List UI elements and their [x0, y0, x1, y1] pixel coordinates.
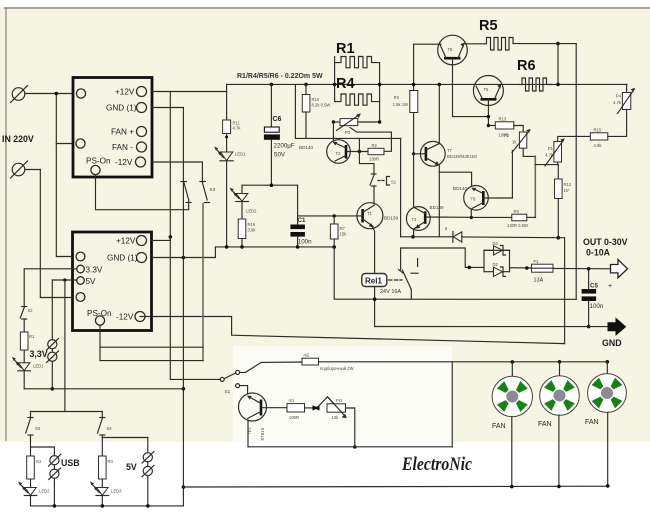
node PSU1 gnd drop	[182, 256, 186, 260]
wire to fuse	[510, 267, 532, 269]
PSU1 pin FAN+	[137, 127, 147, 137]
wire R1R4 left joins rail	[334, 57, 336, 102]
wire branch to PSU1 pin b	[56, 143, 72, 145]
fan 3	[606, 360, 610, 364]
svg-text:BD139: BD139	[384, 216, 398, 221]
wire P1 bottom stub	[557, 162, 559, 165]
wire S2 to R1	[23, 319, 25, 332]
svg-text:R13: R13	[499, 117, 507, 122]
wire T2 collector drop	[332, 122, 334, 141]
pot Pr1 wiper bend	[318, 397, 335, 408]
svg-text:R12: R12	[564, 182, 572, 187]
wire T1 emitter down to relay/gnd	[373, 228, 375, 327]
wire switch to T1 collector	[373, 186, 375, 204]
wire PS-On2 row a	[100, 346, 203, 348]
wire T7 emitter down	[438, 166, 440, 237]
wire fuse to OUT	[553, 267, 610, 269]
svg-text:ElectroNic: ElectroNic	[401, 454, 472, 475]
svg-text:4.7k: 4.7k	[613, 100, 622, 105]
svg-text:подборочный 2W: подборочный 2W	[320, 366, 354, 371]
svg-text:R3: R3	[108, 459, 114, 464]
bottom wire nodes	[53, 504, 57, 508]
svg-text:GND: GND	[602, 338, 622, 348]
svg-text:T7: T7	[447, 148, 453, 153]
svg-text:F1: F1	[534, 259, 540, 264]
svg-text:BD140: BD140	[299, 145, 313, 150]
svg-text:+12V: +12V	[115, 88, 135, 97]
svg-text:Rel1: Rel1	[365, 277, 382, 286]
wire P1 top to R15	[558, 136, 591, 141]
wire R9 row	[471, 216, 512, 218]
diode D5	[453, 232, 462, 242]
svg-text:50V: 50V	[274, 152, 286, 159]
wire LED1b down to rail	[23, 371, 25, 389]
transistor T1	[357, 203, 383, 229]
LED2 (mid)	[241, 185, 243, 193]
svg-text:FAN +: FAN +	[111, 128, 134, 137]
svg-text:3.9k: 3.9k	[248, 228, 257, 233]
svg-text:C1: C1	[298, 217, 306, 224]
svg-text:LED1: LED1	[33, 364, 44, 369]
svg-text:130R: 130R	[369, 157, 379, 162]
svg-text:S1: S1	[225, 389, 231, 394]
svg-text:S2: S2	[28, 308, 34, 313]
PSU1 pin GND (1)	[137, 103, 147, 113]
wire KT819 collector down	[247, 421, 249, 447]
wire KT819 base to rs1	[261, 407, 287, 409]
svg-text:GND (1): GND (1)	[106, 104, 137, 113]
wire P4 top to rail	[626, 84, 628, 92]
node R10 top	[304, 83, 308, 87]
svg-text:S3: S3	[35, 426, 41, 431]
wire top node across	[558, 43, 576, 45]
OUT arrow	[611, 260, 628, 278]
svg-text:PS-On: PS-On	[86, 157, 111, 166]
svg-text:+: +	[608, 283, 612, 290]
wire R9 right	[527, 216, 536, 218]
wire PSU1 GND to S3 column	[152, 107, 183, 109]
GND mid rail	[215, 246, 334, 248]
wire R10 stub	[305, 84, 307, 94]
svg-text:LED1: LED1	[235, 152, 246, 157]
svg-text:FAN: FAN	[538, 421, 552, 428]
wire plug2 right	[25, 169, 40, 171]
white inner region (S1/KT819 zone)	[233, 346, 452, 442]
svg-text:100n: 100n	[590, 303, 604, 310]
wire rs1 to Pr1 wiper	[305, 407, 314, 409]
svg-text:R9: R9	[514, 209, 520, 214]
svg-text:D2: D2	[493, 262, 499, 267]
resistor R13	[495, 122, 514, 129]
wire R16 bottom	[241, 239, 243, 247]
wire R12 bottom to -12V node	[557, 199, 559, 238]
svg-text:5V: 5V	[86, 277, 97, 286]
svg-text:BD139: BD139	[430, 205, 444, 210]
GND bus	[375, 326, 608, 328]
svg-text:IN 220V: IN 220V	[2, 134, 34, 144]
svg-text:+12V: +12V	[116, 237, 136, 246]
switch S2	[22, 306, 27, 308]
svg-text:1k*: 1k*	[564, 188, 570, 193]
resistor R9	[512, 214, 527, 221]
svg-text:T3: T3	[412, 217, 418, 222]
wire blade bottom	[410, 290, 412, 300]
PSU2 pin 3.3V	[77, 265, 85, 273]
fan 1	[511, 360, 515, 364]
resistor coil R1	[335, 57, 380, 68]
svg-text:13A: 13A	[534, 278, 544, 284]
node mains branch	[55, 92, 58, 95]
svg-text:R3: R3	[394, 95, 400, 100]
svg-text:PS-On: PS-On	[87, 309, 112, 318]
wire T2 emitter to mini switch	[359, 152, 374, 174]
GND arrow	[608, 319, 626, 335]
PSU1 pin PS-On	[91, 165, 100, 174]
wire S1 lower pole to KT819	[240, 386, 248, 394]
resistor coil R6	[520, 78, 552, 91]
wire PSU2 +12V jog	[169, 237, 171, 241]
svg-text:OUT 0-30V: OUT 0-30V	[583, 237, 628, 247]
S3/S4 header	[31, 411, 103, 413]
svg-text:100R: 100R	[289, 415, 299, 420]
svg-text:USB: USB	[61, 458, 80, 468]
svg-text:LED3: LED3	[111, 489, 122, 494]
PSU1 pin -12V	[136, 157, 146, 167]
svg-text:LED2: LED2	[39, 489, 50, 494]
wire Pr1 right down	[346, 408, 355, 447]
paper frame left	[5, 8, 7, 441]
PSU1 pin FAN-	[137, 142, 147, 152]
svg-text:R1: R1	[29, 334, 35, 339]
svg-text:КТ819: КТ819	[260, 427, 265, 440]
switch S3 blade 1	[181, 181, 187, 183]
svg-text:R5: R5	[479, 18, 498, 34]
wire R2 right up to P3 row	[350, 128, 391, 152]
wire 5V to S3/S4 header	[64, 280, 66, 412]
svg-text:T6: T6	[471, 197, 477, 202]
transistor T5	[473, 76, 503, 106]
wire S3 blade2 gray drop	[202, 204, 204, 361]
wire LED2 top row	[242, 184, 298, 186]
relay dashes	[389, 279, 403, 281]
PSU1 left pin b	[76, 139, 85, 148]
transistor T7	[420, 141, 445, 166]
wire S1 upper pole to rs2	[240, 362, 302, 372]
wire jacks down to LED rail	[51, 361, 53, 389]
svg-text:8.2k 0.5W: 8.2k 0.5W	[312, 103, 331, 108]
switch S1a (mini)	[371, 173, 376, 175]
wire R15 right to P4 bottom	[608, 110, 627, 137]
switch S3 blade 2	[200, 181, 206, 183]
svg-text:2200µF: 2200µF	[274, 143, 295, 150]
PSU1 left pin a	[76, 89, 85, 98]
wire 5V jacks drop	[51, 280, 53, 340]
svg-text:R2: R2	[36, 459, 42, 464]
resistor R2	[368, 148, 384, 154]
LED1 (top)	[220, 152, 232, 161]
wire long vertical x183	[31, 108, 184, 506]
relay fixed contact	[417, 259, 419, 267]
USB jacks	[31, 446, 55, 448]
svg-text:LED2: LED2	[246, 209, 257, 214]
resistor R2 (usb led)	[27, 456, 35, 479]
svg-text:130R 0.5W: 130R 0.5W	[507, 223, 528, 228]
wire R3 column top	[413, 44, 415, 90]
PSU1 pin +12V	[137, 87, 147, 97]
wire PSU1 +12V to R11 column	[152, 91, 227, 93]
svg-text:T8: T8	[448, 47, 454, 52]
resistor coil R5	[484, 38, 558, 51]
wire PSU2 +12V row	[152, 239, 170, 241]
svg-text:R7: R7	[340, 226, 346, 231]
svg-text:S4: S4	[107, 426, 113, 431]
svg-text:R10: R10	[312, 97, 320, 102]
svg-text:C5: C5	[590, 283, 598, 290]
svg-text:R15: R15	[594, 128, 602, 133]
wire LED1 down to GND rail	[226, 161, 228, 247]
wire S3 blade1 to PS-On PSU1	[96, 175, 189, 210]
wire R1 to LED1b	[23, 350, 25, 363]
resistor R16	[238, 219, 246, 239]
svg-text:1.5k 1W: 1.5k 1W	[393, 102, 408, 107]
wire C1 column	[297, 185, 299, 224]
svg-text:10k: 10k	[332, 415, 340, 420]
resistor R3 (5V led)	[99, 456, 107, 479]
svg-text:3,3V: 3,3V	[30, 349, 48, 359]
wire long vertical x576	[575, 44, 577, 300]
wire P2 bottom chain	[523, 148, 535, 156]
svg-text:4.7k: 4.7k	[233, 126, 242, 131]
wire T8 base row	[414, 43, 441, 45]
svg-text:S3: S3	[210, 187, 216, 192]
wire R1R4 right node	[379, 63, 381, 122]
transistor T8	[438, 35, 468, 65]
wire mains branch down	[56, 94, 72, 257]
resistor R11	[223, 120, 231, 134]
resistor R1 (3.3V led)	[20, 332, 28, 350]
svg-text:rs2: rs2	[304, 353, 310, 358]
wire PS-On2 drop	[99, 325, 101, 361]
ATX PSU 1 box	[73, 78, 152, 178]
LED3 (bottom)	[101, 479, 103, 488]
transistor T6	[464, 186, 489, 211]
svg-text:BD139/MJE15G: BD139/MJE15G	[447, 154, 477, 159]
wire R11 to LED1	[226, 134, 228, 153]
svg-text:R2: R2	[372, 143, 378, 148]
wire elbow to T6 top	[439, 172, 471, 186]
relay blade	[402, 270, 411, 290]
wire T5 emitter down to R13	[487, 99, 489, 125]
svg-text:P2: P2	[504, 133, 510, 138]
wire x400 drop from T-row	[400, 138, 402, 236]
wire P2 wiper down to T6 base	[511, 151, 513, 199]
svg-text:4.9k: 4.9k	[594, 143, 603, 148]
svg-text:-12V: -12V	[115, 158, 133, 167]
svg-text:P4: P4	[616, 94, 622, 99]
node R5 right	[556, 42, 560, 46]
svg-text:R1: R1	[336, 41, 355, 57]
svg-text:C6: C6	[273, 116, 282, 123]
fan 2	[558, 360, 562, 364]
PSU2 pin PS-On	[95, 316, 104, 325]
wire plug1 to PSU1 pin a	[25, 93, 72, 95]
output jacks 3.3V	[48, 340, 57, 349]
wire R11 column	[226, 84, 228, 120]
resistor R7	[333, 216, 335, 224]
wire T2 emitter tail	[358, 138, 360, 151]
PSU2 pin +12V	[137, 236, 147, 246]
wire PSU1 GND drop joins PSU2 gnd row	[182, 256, 184, 258]
wire PS-On2 row b	[100, 360, 203, 362]
mains plug 2	[12, 163, 25, 176]
PSU2 left pin 1	[76, 252, 85, 261]
wire C1 bottom	[297, 237, 299, 247]
svg-text:100n: 100n	[298, 239, 312, 246]
wire to R13	[488, 125, 495, 127]
svg-text:GND (1): GND (1)	[107, 254, 138, 263]
svg-text:R1/R4/R5/R6 - 0.22Om 5W: R1/R4/R5/R6 - 0.22Om 5W	[237, 73, 323, 80]
svg-text:5V: 5V	[126, 462, 137, 472]
svg-text:FAN: FAN	[585, 419, 599, 426]
svg-text:T2: T2	[336, 151, 342, 156]
LED supply rail	[24, 388, 183, 390]
wire chain branch to P1 bottom and R12	[535, 165, 558, 179]
wire 3.3V pin to left	[24, 268, 77, 270]
resistor rs1	[287, 404, 305, 412]
wire D5 row right	[462, 236, 559, 239]
wire D5 row left	[401, 236, 453, 238]
switch S3 (bottom)	[30, 412, 32, 418]
svg-text:15k: 15k	[340, 232, 348, 237]
mains plug 1	[12, 88, 25, 101]
pot P1	[554, 142, 562, 163]
wire rs2 to fans rail	[319, 361, 608, 363]
wire T2 base to R2	[346, 151, 368, 153]
svg-text:T5: T5	[484, 87, 490, 92]
ATX PSU 2 box	[73, 232, 152, 331]
svg-text:P1: P1	[548, 146, 554, 151]
wire 3.3V down to S2	[23, 269, 25, 306]
PSU2 pin GND (1)	[137, 253, 147, 263]
wire T3 emitter down	[413, 229, 415, 237]
diode pair frame	[483, 250, 485, 271]
wire C6 drop	[270, 84, 272, 127]
svg-text:BD140: BD140	[453, 186, 467, 191]
svg-text:P3: P3	[345, 130, 351, 135]
wire -12V route	[140, 316, 152, 318]
5V jacks	[102, 437, 148, 439]
wire plug2 down to PSU2 pin 4	[40, 170, 72, 298]
LED1 (bottom)	[18, 363, 30, 371]
svg-text:R16: R16	[248, 222, 256, 227]
wire main top rail y84	[227, 83, 627, 85]
wire R3 bottom to T7 base and T3	[413, 113, 415, 208]
svg-text:Pr1: Pr1	[336, 398, 343, 403]
fans bottom wire	[183, 485, 609, 488]
wire T8 right to R5	[464, 43, 484, 45]
svg-text:-12V: -12V	[116, 313, 134, 322]
wire R13 to P2	[514, 126, 523, 133]
wire chain down to R9 right (gray)	[534, 156, 536, 217]
wire LED2 to R16	[241, 202, 243, 220]
relay contact common	[400, 248, 402, 270]
LED2 (bottom)	[30, 479, 32, 488]
fuse F1	[532, 264, 554, 272]
wire S1 feed row	[170, 378, 220, 380]
pot P4	[622, 93, 630, 110]
wire rail end down	[334, 247, 576, 299]
capacitor C5	[588, 269, 590, 289]
resistor R3	[410, 91, 418, 113]
wire 558 down	[557, 44, 559, 85]
wire T1 base row	[298, 215, 363, 217]
relay Rel1 box	[362, 274, 387, 287]
svg-text:rs1: rs1	[289, 398, 295, 403]
wire T6 base to right	[483, 197, 512, 199]
svg-text:FAN: FAN	[492, 423, 506, 430]
svg-text:R6: R6	[517, 58, 536, 74]
transistor T2	[327, 140, 351, 164]
wire to -12V drop	[558, 238, 564, 344]
resistor R15	[590, 133, 608, 140]
wire +12V long vertical x170	[169, 92, 171, 380]
switch S1 (fans)	[220, 377, 224, 381]
svg-text:3.3V: 3.3V	[86, 266, 103, 275]
wire C6 bottom down	[270, 140, 272, 185]
resistor R10	[302, 95, 310, 113]
svg-text:FAN -: FAN -	[112, 143, 133, 152]
transistor Tp1 KT819	[239, 393, 267, 421]
pot Pr1	[327, 404, 346, 412]
node C6 top	[270, 83, 274, 87]
node 5V branch	[63, 278, 66, 281]
paper frame top	[4, 7, 650, 9]
pot P3	[340, 119, 358, 126]
svg-text:4.7k: 4.7k	[545, 153, 554, 158]
resistor R12	[555, 179, 563, 199]
pot P3 row	[333, 121, 340, 123]
PSU2 pin 5V	[77, 277, 85, 285]
wire x295 drop	[295, 84, 400, 138]
svg-text:0-10A: 0-10A	[586, 248, 611, 258]
wire white box bottom	[248, 446, 452, 448]
wire 5V pin to left	[52, 279, 77, 281]
svg-text:24V 16A: 24V 16A	[380, 289, 401, 295]
wire T7 collector up to rail	[438, 84, 440, 143]
wire R10 bottom to T2 top	[305, 112, 307, 138]
switch S4 (bottom)	[101, 412, 103, 418]
wire white box right	[451, 362, 453, 447]
svg-text:T1: T1	[367, 211, 373, 216]
svg-text:R4: R4	[336, 76, 355, 92]
wire T6 emitter down	[470, 210, 472, 217]
resistor rs2	[302, 358, 319, 365]
svg-text:Тр1: Тр1	[247, 427, 252, 435]
pot P2	[519, 132, 526, 148]
resistor coil R4	[335, 94, 380, 105]
wire relay top path	[401, 248, 484, 267]
svg-text:S1: S1	[391, 180, 397, 185]
wire T8 emitter down and to T5 node	[453, 58, 489, 116]
PSU2 left pin 4	[76, 293, 85, 302]
PSU2 pin -12V	[135, 312, 145, 322]
transistor T3	[406, 207, 430, 231]
wire PSU1 -12V to S3b column	[152, 162, 202, 182]
wire step to PSU2 GND	[152, 247, 215, 258]
